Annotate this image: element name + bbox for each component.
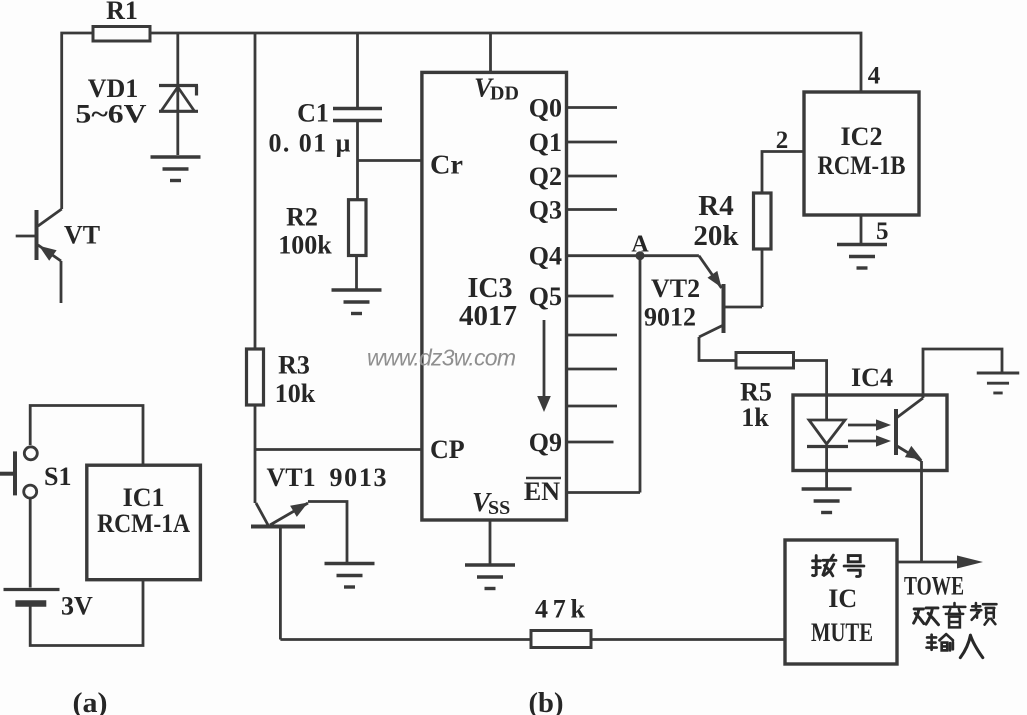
svg-text:20k: 20k bbox=[693, 220, 739, 252]
pin Q4 / node A bbox=[529, 232, 650, 271]
svg-text:5~6V: 5~6V bbox=[76, 100, 147, 129]
wire MUTE output arrow bbox=[897, 556, 983, 569]
battery 3V bbox=[4, 590, 94, 621]
svg-text:IC3: IC3 bbox=[467, 273, 512, 304]
pin Q1 bbox=[529, 128, 617, 157]
svg-text:A: A bbox=[631, 232, 649, 258]
wire VD1 branch bbox=[176, 33, 179, 155]
wire 47k to MUTE bbox=[591, 638, 785, 641]
switch S1 bbox=[0, 406, 143, 499]
ground (VD1) bbox=[151, 157, 201, 181]
ground (top right) bbox=[977, 373, 1020, 393]
svg-text:Q5: Q5 bbox=[529, 282, 562, 311]
LED (IC4) bbox=[807, 420, 848, 488]
svg-text:Q1: Q1 bbox=[529, 128, 562, 157]
IC3 4017 box bbox=[422, 72, 567, 520]
capacitor C1 bbox=[269, 99, 383, 158]
svg-text:VT1: VT1 bbox=[267, 463, 316, 492]
svg-text:VT2: VT2 bbox=[651, 274, 700, 303]
resistor 47k bbox=[531, 595, 591, 648]
wire R4 to IC2 pin 2 bbox=[762, 127, 804, 193]
svg-text:MUTE: MUTE bbox=[811, 618, 873, 647]
svg-text:1k: 1k bbox=[741, 403, 769, 432]
svg-text:(b): (b) bbox=[529, 688, 564, 715]
wire VDD bbox=[489, 33, 492, 73]
svg-text:IC2: IC2 bbox=[841, 122, 883, 151]
ground (R2) bbox=[332, 290, 382, 314]
svg-text:R2: R2 bbox=[286, 203, 318, 232]
svg-text:R3: R3 bbox=[278, 351, 310, 380]
svg-text:R4: R4 bbox=[698, 190, 733, 222]
ground (IC4 LED) bbox=[802, 489, 852, 513]
svg-text:0. 01 µ: 0. 01 µ bbox=[269, 129, 351, 158]
label 拨号 bbox=[813, 555, 864, 576]
svg-text:Q9: Q9 bbox=[529, 428, 562, 457]
svg-text:9012: 9012 bbox=[644, 303, 696, 332]
ground (VT1) bbox=[325, 564, 375, 588]
svg-text:4017: 4017 bbox=[459, 301, 517, 332]
resistor R5 bbox=[736, 353, 794, 433]
wire C1 branch bbox=[356, 33, 359, 107]
wire collector to ground bbox=[923, 349, 1002, 398]
svg-text:IC4: IC4 bbox=[851, 363, 893, 392]
svg-text:C1: C1 bbox=[297, 99, 329, 128]
wire battery to IC1 bbox=[30, 580, 143, 646]
wire node A to VT2 bbox=[640, 254, 699, 257]
pin Q2 bbox=[529, 162, 617, 191]
transistor VT2 bbox=[644, 249, 762, 361]
wire R3 column bbox=[254, 33, 257, 503]
svg-text:5: 5 bbox=[876, 218, 889, 245]
wire S1 to battery bbox=[29, 498, 32, 588]
svg-text:4: 4 bbox=[868, 63, 881, 90]
wire CP bbox=[255, 448, 422, 451]
svg-text:IC: IC bbox=[828, 584, 857, 613]
wire emitter to TOWE line bbox=[920, 461, 923, 562]
pin Q3 bbox=[529, 196, 617, 225]
pin VSS bbox=[472, 487, 510, 519]
pin Q0 bbox=[529, 94, 617, 123]
resistor R2 bbox=[278, 200, 366, 260]
svg-text:www.dz3w.com: www.dz3w.com bbox=[367, 345, 516, 371]
dial IC MUTE box bbox=[785, 540, 897, 664]
svg-text:9013: 9013 bbox=[330, 463, 387, 492]
transistor VT1 bbox=[251, 463, 387, 640]
pin Q5 bbox=[529, 282, 614, 311]
pin EN bbox=[524, 477, 640, 506]
phototransistor (IC4) bbox=[896, 398, 923, 461]
svg-text:SS: SS bbox=[488, 497, 510, 519]
light arrows (IC4) bbox=[848, 419, 891, 446]
svg-text:Q3: Q3 bbox=[529, 196, 562, 225]
pin Q6 bbox=[567, 334, 618, 337]
svg-text:3V: 3V bbox=[61, 592, 93, 621]
zener diode VD1 bbox=[76, 74, 199, 129]
pin 5 wire bbox=[861, 215, 889, 245]
resistor R3 bbox=[247, 349, 316, 408]
label 双音频 bbox=[914, 603, 997, 627]
svg-text:Cr: Cr bbox=[430, 150, 463, 180]
svg-text:CP: CP bbox=[430, 435, 465, 464]
IC1 RCM-1A bbox=[87, 465, 201, 580]
wire VT1 base to 47k bbox=[280, 638, 531, 641]
svg-text:(a): (a) bbox=[73, 688, 108, 715]
svg-text:10k: 10k bbox=[275, 379, 316, 408]
IC3 internal arrow bbox=[537, 320, 551, 412]
svg-text:Q4: Q4 bbox=[529, 242, 562, 271]
svg-text:TOWE: TOWE bbox=[904, 572, 964, 601]
transistor VT bbox=[16, 209, 100, 303]
pin Q7 bbox=[567, 368, 618, 371]
svg-text:2: 2 bbox=[776, 127, 789, 154]
svg-text:VT: VT bbox=[64, 221, 100, 250]
ground (VSS) bbox=[465, 565, 515, 589]
resistor R4 bbox=[693, 190, 771, 252]
svg-text:RCM-1B: RCM-1B bbox=[818, 151, 906, 180]
label 输入 bbox=[927, 634, 983, 658]
svg-text:DD: DD bbox=[490, 83, 519, 105]
IC2 RCM-1B bbox=[804, 92, 919, 215]
wire R2 to ground bbox=[355, 256, 358, 290]
svg-text:S1: S1 bbox=[44, 462, 71, 491]
svg-text:Q2: Q2 bbox=[529, 162, 562, 191]
pin Q8 bbox=[567, 405, 618, 408]
resistor R1 bbox=[93, 0, 150, 41]
svg-text:EN: EN bbox=[524, 477, 560, 506]
svg-text:R1: R1 bbox=[106, 0, 138, 25]
pin VDD bbox=[474, 73, 519, 105]
wire node A to EN bbox=[639, 256, 642, 493]
svg-text:100k: 100k bbox=[278, 231, 332, 260]
wire R5 to IC4 LED bbox=[794, 361, 827, 421]
wire VT1 emitter to ground bbox=[308, 502, 347, 563]
ground (IC2 pin5) bbox=[837, 245, 887, 269]
svg-text:RCM-1A: RCM-1A bbox=[97, 509, 190, 538]
wire top supply rail bbox=[62, 33, 861, 209]
wire C1 to Cr node bbox=[358, 122, 422, 200]
pin Q9 bbox=[529, 428, 614, 457]
IC4 optocoupler box bbox=[793, 363, 947, 471]
svg-text:Q0: Q0 bbox=[529, 94, 562, 123]
svg-text:47k: 47k bbox=[535, 595, 586, 624]
svg-text:IC1: IC1 bbox=[123, 483, 165, 512]
wire VSS to ground bbox=[489, 520, 492, 564]
